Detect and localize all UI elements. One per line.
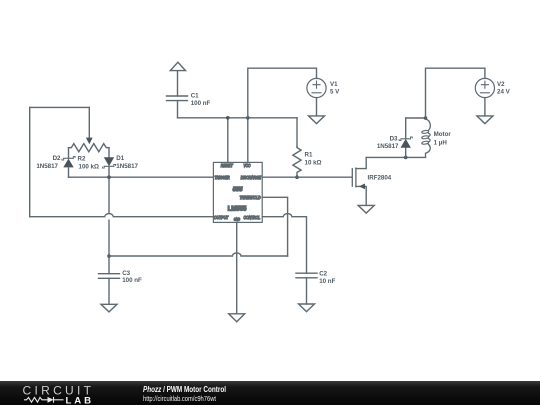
capacitor C3	[99, 274, 120, 305]
voltage source V2	[475, 78, 494, 116]
wire: vcc rail corner down to R1	[296, 118, 298, 147]
wire: vcc node up and right to V1	[248, 68, 317, 118]
svg-text:VCC: VCC	[244, 162, 251, 168]
svg-text:R2: R2	[78, 156, 86, 163]
wire: threshold return horizontal with hop over GND stem	[109, 253, 288, 256]
svg-text:http://circuitlab.com/c9h76wt: http://circuitlab.com/c9h76wt	[143, 394, 216, 403]
ground (C3)	[101, 304, 117, 312]
svg-text:OUTPUT: OUTPUT	[214, 215, 229, 221]
junction: discharge/R1 node	[295, 175, 299, 179]
svg-text:D2: D2	[53, 155, 61, 162]
svg-text:10 kΩ: 10 kΩ	[305, 160, 322, 167]
svg-text:C2: C2	[319, 270, 327, 277]
wire: motor top to D3 top	[406, 117, 426, 119]
diode D1 (schottky, cathode down)	[102, 157, 115, 177]
wire: GND pin stem down	[236, 222, 238, 313]
wire: drain net horizontal	[366, 156, 425, 158]
svg-text:555: 555	[233, 187, 243, 193]
diode D3 (schottky, cathode up)	[399, 118, 412, 157]
wire: R2 left lead down to D2	[68, 148, 70, 159]
wire: D1 node down to C3 (crosses under output wire)	[108, 177, 110, 213]
wire: discharge net 555 to MOSFET gate	[262, 176, 351, 178]
svg-text:C1: C1	[191, 92, 199, 99]
svg-text:100 nF: 100 nF	[122, 277, 142, 284]
wire: VCC stem	[247, 118, 249, 163]
junction: threshold-return / C3 node	[107, 254, 111, 258]
capacitor C2	[296, 273, 317, 304]
resistor R1 zigzag	[293, 146, 301, 177]
svg-text:IRF2804: IRF2804	[368, 175, 392, 182]
svg-text:5 V: 5 V	[330, 88, 340, 95]
voltage source V1	[307, 78, 326, 116]
svg-text:R1: R1	[305, 152, 313, 159]
svg-text:100 kΩ: 100 kΩ	[79, 164, 99, 171]
svg-text:10 nF: 10 nF	[319, 278, 335, 285]
svg-text:V1: V1	[330, 81, 338, 88]
wire: R2 right lead down to D1	[108, 148, 110, 158]
svg-text:1N5817: 1N5817	[116, 163, 138, 170]
junction: trigger/D1 node	[107, 175, 111, 179]
svg-text:1 µH: 1 µH	[434, 139, 448, 146]
svg-text:RESET: RESET	[221, 163, 233, 169]
ground (V2)	[477, 116, 493, 124]
wire: left rail vertical (output net)	[29, 107, 31, 216]
svg-text:24 V: 24 V	[497, 88, 511, 95]
svg-text:DISCHARGE: DISCHARGE	[241, 174, 262, 180]
junction: motor/V2 node	[424, 116, 428, 120]
wire: motor node up and right to V2	[426, 68, 485, 118]
ground (C2)	[299, 304, 315, 312]
junction: D3/drain node	[404, 156, 408, 160]
svg-text:Motor: Motor	[434, 131, 452, 138]
wire: control net right with hop over threshold wire, down to C2	[262, 214, 306, 274]
wire: R2 wiper stem	[88, 107, 90, 138]
svg-text:1N5817: 1N5817	[377, 143, 399, 150]
svg-text:1N5817: 1N5817	[36, 163, 58, 170]
junction: reset node	[226, 116, 230, 120]
svg-text:LM555: LM555	[228, 206, 247, 212]
ground (V1)	[309, 116, 325, 124]
svg-text:D1: D1	[116, 155, 124, 162]
wire: top-left horizontal to pot wiper	[30, 106, 90, 108]
logo squiggle (resistor+diode)	[24, 397, 64, 403]
svg-text:D3: D3	[390, 135, 398, 142]
potentiometer R2 zigzag	[69, 144, 110, 152]
wire: RESET stem	[227, 118, 229, 163]
wire: threshold loop right and down	[262, 197, 287, 256]
op-amp/IC U1 LM555 box	[213, 162, 262, 222]
svg-text:CONTROL: CONTROL	[244, 215, 261, 221]
power arrow (supply symbol above C1)	[170, 62, 185, 70]
inductor/motor L1 coil	[422, 118, 431, 157]
wire: trigger net horizontal D2/D1 to 555 TRIGGER pin	[69, 176, 214, 178]
svg-text:GND: GND	[234, 217, 241, 222]
transistor Q1 IRF2804 (NMOS)	[352, 157, 366, 205]
svg-text:100 nF: 100 nF	[191, 100, 211, 107]
svg-text:TRIGGER: TRIGGER	[215, 174, 230, 180]
wire: output net horizontal with hop over C3 wire	[30, 214, 214, 217]
wire: vcc rail horizontal	[178, 117, 298, 119]
ground (Q1 source)	[358, 205, 374, 213]
footer bar	[0, 381, 540, 405]
svg-text:C3: C3	[122, 270, 130, 277]
junction: vcc node	[246, 116, 250, 120]
svg-text:LAB: LAB	[66, 395, 92, 405]
capacitor C1	[167, 71, 188, 118]
ground (555 GND)	[229, 314, 245, 322]
R2 wiper arrowhead	[86, 138, 93, 145]
svg-text:Phozz / PWM Motor Control: Phozz / PWM Motor Control	[143, 385, 226, 394]
diode D2 (schottky, cathode up)	[62, 157, 75, 178]
svg-text:V2: V2	[497, 81, 505, 88]
svg-text:THRESHOLD: THRESHOLD	[240, 194, 261, 200]
